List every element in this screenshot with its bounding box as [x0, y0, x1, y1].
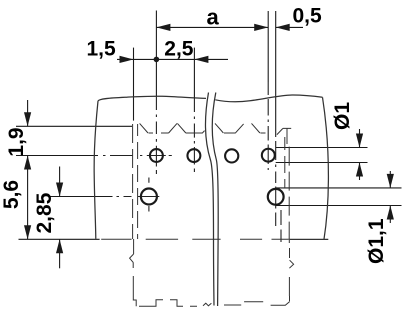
svg-text:2,85: 2,85 — [33, 192, 56, 233]
svg-text:Ø1,1: Ø1,1 — [365, 218, 388, 264]
svg-text:1,9: 1,9 — [5, 127, 28, 156]
svg-text:2,5: 2,5 — [164, 38, 194, 61]
svg-text:a: a — [206, 4, 219, 29]
svg-text:1,5: 1,5 — [86, 38, 116, 61]
svg-text:Ø1: Ø1 — [331, 102, 354, 130]
svg-text:5,6: 5,6 — [0, 180, 23, 209]
svg-text:0,5: 0,5 — [292, 5, 322, 28]
